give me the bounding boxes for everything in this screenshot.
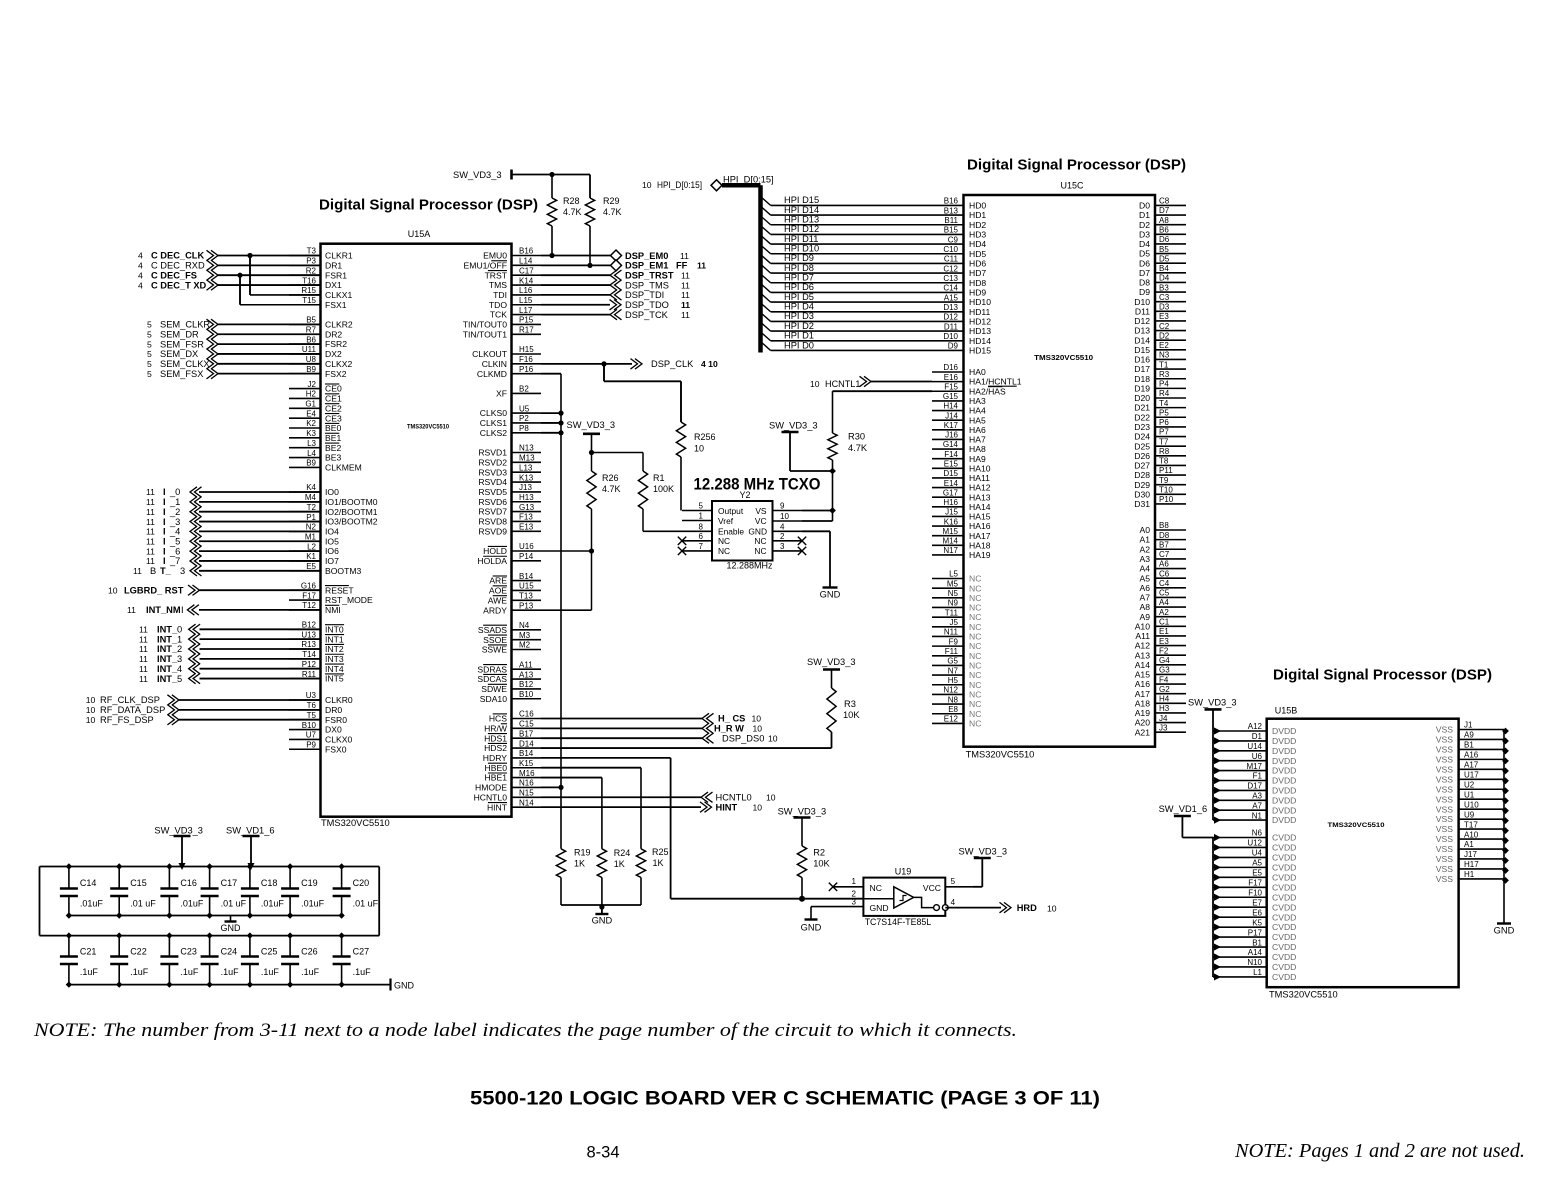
junction C18 bottom [247,912,253,918]
svg-text:P11: P11 [1159,466,1173,475]
wire I_0 to U15A IO0 [199,491,321,493]
svg-text:B16: B16 [944,197,959,206]
svg-text:P12: P12 [302,660,317,669]
svg-text:5500-120 LOGIC BOARD VER C SCH: 5500-120 LOGIC BOARD VER C SCHEMATIC (PA… [470,1088,1100,1110]
svg-text:3: 3 [780,542,785,551]
svg-text:A1: A1 [1464,840,1474,849]
svg-text:IO7: IO7 [325,556,339,566]
svg-text:M15: M15 [942,527,958,536]
svg-text:U2: U2 [1464,780,1475,789]
U15C pin L5 NC [932,570,981,584]
node 11 I_4 (off-page, page 11) [146,526,202,536]
wire DVDD bus vertical [1212,731,1214,820]
svg-text:11: 11 [680,251,689,261]
wire DEC_FS branch to FSX1 with junction [237,273,320,305]
svg-text:P10: P10 [1159,495,1174,504]
svg-text:HRD: HRD [1017,903,1037,913]
svg-text:C24: C24 [221,947,238,957]
U15C pin H4 A18 [1135,695,1186,709]
U15A pin T2 IO2/BOOTM1 [289,503,378,517]
svg-text:Digital Signal Processor (DSP): Digital Signal Processor (DSP) [319,198,538,214]
svg-text:DVDD: DVDD [1272,756,1296,766]
svg-text:NMI: NMI [325,605,341,615]
svg-text:T7: T7 [1159,437,1169,446]
junction DVDD N1 [1214,817,1221,824]
U15C pin D8 A1 [1139,531,1186,545]
svg-text:U13: U13 [301,630,316,639]
svg-text:11: 11 [146,536,155,546]
U15B pin K5 CVDD [1213,918,1296,932]
svg-text:IO3/BOOTM2: IO3/BOOTM2 [325,517,378,527]
svg-text:RF_CLK_DSP: RF_CLK_DSP [100,695,160,705]
wire I_2 to U15A IO2 [199,511,321,513]
svg-text:SW_VD3_3: SW_VD3_3 [154,826,203,836]
svg-text:F14: F14 [944,450,958,459]
svg-text:VSS: VSS [1436,725,1453,735]
U15C pin R8 D26 [1134,447,1186,461]
junction HMODE/CLKMD [558,785,563,790]
svg-text:D15: D15 [1134,345,1150,355]
svg-text:I: I [163,487,166,497]
U15B pin T17 VSS [1436,820,1504,834]
svg-text:G4: G4 [1159,656,1170,665]
svg-text:NC: NC [969,661,981,671]
svg-text:10: 10 [768,733,778,743]
resistor R19 1K [556,848,590,906]
svg-text:SW_VD3_3: SW_VD3_3 [778,807,827,817]
junction VSS H1 [1502,877,1509,884]
U15C pin T9 D29 [1134,476,1186,490]
svg-text:K13: K13 [519,473,534,482]
IC U15A TMS320VC5510 (left DSP) box and labels [321,229,512,828]
wire HDS2 to R3 bottom [541,732,832,748]
node 11 INT_4 (off-page) [139,664,200,674]
svg-text:_6: _6 [169,546,180,556]
svg-text:J5: J5 [950,618,959,627]
U15C pin J16 HA7 [932,431,986,445]
junction DVDD A12 [1214,727,1221,734]
wire INT_1 to U15A INT1 [200,638,321,640]
U15A pin H15 CLKOUT [472,345,541,359]
junction SW_VD1_6 to rail [248,863,255,870]
wire HPI D0 to U15C [771,349,932,351]
svg-text:CLKMD: CLKMD [477,369,507,379]
U15C pin N8 NC [932,695,981,709]
U15A pin P8 CLKS2 [480,424,541,438]
svg-text:HPI_D[0:15]: HPI_D[0:15] [723,175,774,185]
bus branch HPI D9 [761,255,771,264]
svg-text:B17: B17 [519,729,534,738]
svg-text:10: 10 [86,705,96,715]
U15C pin G14 HA8 [932,440,986,454]
svg-text:J13: J13 [519,483,532,492]
svg-text:A5: A5 [1252,859,1262,868]
svg-text:VSS: VSS [1436,745,1453,755]
U15B pin F10 CVDD [1213,888,1296,902]
U15C pin C8 D0 [1139,197,1186,211]
U15A pin R13 INT2 [289,640,344,654]
svg-text:SW_VD3_3: SW_VD3_3 [453,170,502,180]
svg-text:11: 11 [146,507,155,517]
svg-text:B4: B4 [1159,264,1169,273]
wire HPI D1 to U15C [771,340,932,342]
svg-text:T5: T5 [307,711,317,720]
junction R26 to HOLD wire [589,548,594,553]
svg-text:.01 uF: .01 uF [130,899,156,909]
svg-text:P4: P4 [1159,380,1169,389]
svg-text:N14: N14 [519,798,534,807]
svg-text:HA19: HA19 [969,550,991,560]
U15C pin D3 D11 [1135,303,1186,317]
svg-text:D6: D6 [1159,235,1170,244]
svg-text:U11: U11 [302,345,317,354]
U15C pin G2 A17 [1135,685,1186,699]
U15A pin U16 HOLD [483,542,541,556]
svg-text:INT0: INT0 [325,624,344,634]
svg-text:HR/W: HR/W [484,723,508,733]
wire rail to R1 top [592,452,644,454]
U15A pin N4 SSADS [478,621,541,635]
svg-text:HD5: HD5 [969,249,986,259]
svg-text:CLKS2: CLKS2 [480,428,507,438]
svg-text:.01uF: .01uF [261,899,285,909]
svg-text:CLKX2: CLKX2 [325,359,352,369]
wire INT_3 to U15A INT3 [200,658,321,660]
svg-text:DSP_DS0: DSP_DS0 [722,733,764,743]
svg-text:H_R W: H_R W [714,724,744,734]
junction C21 top [66,932,72,938]
wire ARDY to R26 vertical [541,609,592,611]
svg-text:HD3: HD3 [969,230,986,240]
U15A pin A11 SDRAS [477,660,541,674]
svg-text:RSVD3: RSVD3 [478,467,507,477]
svg-text:4: 4 [177,664,182,674]
svg-text:R26: R26 [602,473,619,483]
U15C pin M5 NC [932,579,981,593]
svg-text:Enable: Enable [718,526,744,536]
svg-text:1: 1 [699,512,704,521]
svg-text:D8: D8 [1139,278,1150,288]
wire I_3 to U15A IO3 [199,521,321,523]
svg-text:VSS: VSS [1436,824,1453,834]
U15C pin N5 NC [932,589,981,603]
U15A pin L17 TCK [490,306,541,320]
svg-text:_3: _3 [169,517,180,527]
svg-text:EMU0: EMU0 [483,251,507,261]
svg-text:M4: M4 [305,493,317,502]
junction C14 bottom [66,912,72,918]
Y2 pin 8 (left) [682,523,712,532]
svg-text:M1: M1 [305,532,317,541]
junction C17 bottom [206,912,212,918]
U15C pin T10 D30 [1134,486,1186,500]
U15C pin E15 HA10 [932,460,991,474]
svg-text:C9: C9 [948,235,959,244]
svg-text:AWE: AWE [488,595,508,605]
svg-text:B12: B12 [302,621,317,630]
junction R29 to EMU1 wire [587,263,592,268]
wire HMODE to CLKMD vertical [541,786,561,788]
U15C pin P7 D24 [1134,428,1186,442]
svg-text:TMS320VC5510: TMS320VC5510 [407,424,449,431]
svg-text:CVDD: CVDD [1272,853,1296,863]
node 4 C DEC_FS (off-page, page 4) [138,270,218,280]
svg-text:D17: D17 [1247,782,1262,791]
wire VSS common vertical to ground [1503,730,1505,924]
node HRD 10 (off-page) [1000,902,1057,913]
IC U15B TMS320VC5510 (power pins DSP) box and labels [1267,706,1459,1000]
svg-text:H5: H5 [948,676,959,685]
svg-text:A6: A6 [1139,583,1150,593]
svg-text:HD11: HD11 [969,307,991,317]
IC U19 TC7S14F-TE85L inverter [863,867,948,928]
svg-text:I: I [163,527,166,537]
svg-text:D13: D13 [943,303,958,312]
bus branch HPI D12 [761,226,771,235]
ground symbol below Y2 [820,588,841,600]
U15A pin U15 AOE [489,582,541,596]
svg-text:D11: D11 [944,322,959,331]
U15A pin K15 HBE0 [485,759,541,773]
junction C19 top [287,863,293,869]
svg-text:CVDD: CVDD [1272,892,1296,902]
junction CVDD E6 [1214,914,1221,921]
capacitor C15 .01uF [110,867,156,916]
svg-text:SW_VD3_3: SW_VD3_3 [807,657,856,667]
U15C pin N17 HA19 [932,546,991,560]
svg-text:DVDD: DVDD [1272,726,1296,736]
junction DVDD D1 [1214,737,1221,744]
svg-text:F16: F16 [519,355,533,364]
svg-text:RESET: RESET [325,585,354,595]
junction DVDD M17 [1214,767,1221,774]
junction CVDD B1 [1214,943,1221,950]
svg-text:HDS1: HDS1 [484,733,507,743]
U15B pin B1 VSS [1436,741,1504,755]
svg-text:_2: _2 [169,507,180,517]
svg-text:DSP_EM1: DSP_EM1 [625,261,668,271]
U15C pin N12 NC [932,686,981,700]
svg-text:D14: D14 [519,739,534,748]
svg-text:GND: GND [870,903,889,913]
U15A pin P13 ARDY [483,601,541,615]
svg-text:D5: D5 [1159,254,1170,263]
U15B pin A14 CVDD [1213,948,1296,962]
svg-text:U15B: U15B [1275,706,1298,716]
U15B pin L1 CVDD [1213,968,1296,982]
svg-text:D0: D0 [1139,201,1150,211]
wire HCS to node H_CS [541,718,702,720]
svg-text:FSX1: FSX1 [325,300,347,310]
junction CVDD F10 [1214,894,1221,901]
ground symbol below U15B VSS [1494,924,1515,936]
svg-text:HPI D2: HPI D2 [784,321,814,331]
wire INT_NMI to U15A NMI [199,609,321,611]
svg-text:N8: N8 [948,695,959,704]
svg-text:U8: U8 [306,355,317,364]
svg-text:RST_MODE: RST_MODE [325,595,373,605]
svg-text:U9: U9 [1464,810,1475,819]
wire U15A to DSP_TMS [541,284,610,286]
svg-text:L15: L15 [519,296,533,305]
svg-text:E14: E14 [944,479,959,488]
U15C pin C14 HD9 [932,284,986,298]
U15A pin P14 HOLDA [477,552,541,566]
U15C pin A6 A4 [1139,560,1186,574]
svg-text:R3: R3 [844,699,856,709]
svg-text:U5: U5 [519,404,530,413]
svg-text:T3: T3 [307,247,317,256]
svg-text:J4: J4 [1159,714,1168,723]
svg-text:M17: M17 [1246,762,1262,771]
svg-text:DVDD: DVDD [1272,736,1296,746]
U15A pin U11 DX2 [289,345,342,359]
svg-text:A18: A18 [1135,698,1151,708]
svg-text:HD15: HD15 [969,346,991,356]
U15A pin B9 FSX2 [289,365,347,379]
svg-text:CVDD: CVDD [1272,972,1296,982]
svg-text:DVDD: DVDD [1272,805,1296,815]
svg-text:NC: NC [754,536,766,546]
svg-text:A4: A4 [1139,564,1150,574]
U15A pin B12 INT0 [289,621,344,635]
node DSP_CLK (off-page, pages 4 10) [631,359,718,369]
svg-text:H3: H3 [1159,704,1170,713]
U15B pin A7 DVDD [1213,801,1296,815]
power symbol SW_VD3_3 at capacitor bank [154,826,203,867]
U15B pin A12 DVDD [1213,722,1296,736]
U15B pin A10 VSS [1436,830,1504,844]
svg-text:U15: U15 [519,582,534,591]
svg-text:DSP_CLK: DSP_CLK [651,359,694,369]
svg-text:A3: A3 [1139,554,1150,564]
svg-text:B8: B8 [1159,521,1169,530]
svg-text:BE1: BE1 [325,433,341,443]
svg-text:C2: C2 [1159,322,1170,331]
svg-text:H1: H1 [1464,870,1475,879]
wire U15A to DSP_TCK [541,314,610,316]
U15C pin P11 D28 [1134,466,1186,480]
junction C17 top [206,863,212,869]
junction C15 bottom [116,912,122,918]
svg-text:TMS320VC5510: TMS320VC5510 [1328,822,1385,829]
svg-text:SW_VD1_6: SW_VD1_6 [1159,804,1208,814]
capacitor C24 .1uF [201,936,240,985]
svg-text:J2: J2 [308,380,317,389]
svg-text:HD1: HD1 [969,210,986,220]
svg-text:G16: G16 [301,581,317,590]
wire power rail loop around capacitor bank [40,867,380,936]
junction VS pin9 on rail [829,507,836,514]
svg-text:T16: T16 [302,276,316,285]
svg-text:R13: R13 [301,640,316,649]
svg-text:NC: NC [969,699,981,709]
svg-text:C DEC_RXD: C DEC_RXD [151,261,205,271]
junction DVDD F1 [1214,777,1221,784]
svg-text:HD6: HD6 [969,259,986,269]
node DSP_DS0 10 (off-page) [702,733,778,743]
U15A pin B14 HDRY [483,749,541,763]
svg-text:C16: C16 [519,710,534,719]
U15C pin F2 A13 [1135,646,1186,660]
U15A pin E5 BOOTM3 [289,562,362,576]
wire SEM_FSR to U15A [218,343,321,345]
svg-text:I: I [163,517,166,527]
U15B pin A3 DVDD [1213,792,1296,806]
svg-text:A19: A19 [1135,708,1151,718]
wire CLKIN to DSP_CLK [541,363,632,365]
svg-text:NC: NC [969,603,981,613]
svg-text:U6: U6 [1252,752,1263,761]
svg-text:7: 7 [699,542,704,551]
capacitor C16 .01uF [160,867,204,916]
svg-text:SDRAS: SDRAS [477,664,507,674]
U15C pin B6 D3 [1139,225,1186,239]
ground symbol at lower GND rail end [391,979,415,991]
wire C DEC_T XD to U15A [218,284,321,286]
Y2 pin 4 (right) [773,523,803,532]
svg-text:U1: U1 [1464,790,1475,799]
U15A pin L14 EMU1/OFF [464,257,541,271]
svg-text:DSP_TMS: DSP_TMS [625,280,669,290]
wire HCNTL1 to U15C HA1/HCNTL1 [871,381,932,383]
junction VSS U10 [1502,807,1509,814]
svg-text:F4: F4 [1159,675,1169,684]
svg-text:L16: L16 [519,286,533,295]
svg-text:100K: 100K [653,484,674,494]
wire HPI D14 to U15C [771,214,932,216]
U15A pin B16 EMU0 [483,247,541,261]
U15A pin L13 RSVD3 [478,463,541,477]
wire Y2 GND pin4 down to ground [802,531,830,587]
svg-text:J16: J16 [945,431,958,440]
no-connect X on Y2 pin 2 [798,537,806,545]
svg-text:D12: D12 [943,313,958,322]
junction VSS T17 [1502,827,1509,834]
wire HBE0 down to R25 [541,768,641,849]
svg-text:5: 5 [147,369,152,379]
svg-text:3: 3 [852,897,857,906]
svg-text:K2: K2 [306,419,316,428]
U15A pin K3 BE1 [289,429,341,443]
svg-text:INT2: INT2 [325,644,344,654]
junction VSS A1 [1502,847,1509,854]
U15C pin R3 D18 [1134,370,1186,384]
svg-text:D9: D9 [1139,287,1150,297]
svg-text:CLKIN: CLKIN [482,359,507,369]
U15C pin T4 D21 [1134,399,1186,413]
svg-text:D16: D16 [943,363,958,372]
svg-text:C6: C6 [1159,569,1170,578]
svg-text:N4: N4 [519,621,530,630]
svg-text:HA17: HA17 [969,531,991,541]
resistor R2 10K (pull-up on HDRY) [797,818,830,899]
svg-text:K4: K4 [306,483,316,492]
svg-text:IO4: IO4 [325,527,339,537]
svg-text:CLKS1: CLKS1 [480,418,507,428]
U15B pin U12 CVDD [1213,839,1296,853]
bus branch HPI D4 [761,303,771,312]
U15B pin U6 DVDD [1213,752,1296,766]
U15C pin F9 NC [932,637,981,651]
svg-text:10: 10 [1047,904,1057,914]
svg-text:1K: 1K [653,858,664,868]
svg-text:DVDD: DVDD [1272,766,1296,776]
svg-text:TMS320VC5510: TMS320VC5510 [1034,353,1093,362]
svg-text:C3: C3 [1159,293,1170,302]
junction at R24 bottom [599,904,604,909]
U15C pin T7 D25 [1134,437,1186,451]
